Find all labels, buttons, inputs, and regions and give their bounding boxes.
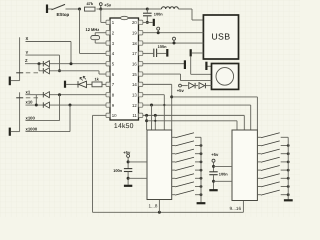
U1 notch (120, 16, 128, 19)
U1 pin 6 stub (106, 72, 110, 76)
resistor R2 1k (92, 82, 102, 87)
ground bar (64, 81, 66, 88)
switch S7 button 7 (172, 186, 176, 188)
wire (39, 70, 44, 72)
wire pin 14 (143, 83, 172, 85)
wire pin 18 D+ (143, 42, 204, 44)
wire (11, 80, 20, 82)
switch S16 button 16 (257, 194, 261, 196)
junction dot (38, 62, 41, 65)
switch S10 button 10 (257, 145, 261, 147)
svg-text:1...8: 1...8 (149, 203, 158, 208)
wire drop box2 (243, 115, 245, 130)
U1 pin 1 stub (106, 20, 110, 24)
switch S14 button 14 (257, 177, 261, 179)
resistor R1 47k (85, 7, 96, 11)
wire (181, 85, 187, 87)
svg-text:x1: x1 (26, 89, 31, 94)
junction dot (287, 169, 290, 172)
wire pin 3 (94, 40, 96, 43)
diode D5 (189, 83, 195, 89)
junction dot (158, 211, 161, 214)
svg-text:11: 11 (132, 113, 137, 118)
wire (147, 8, 161, 10)
junction dot (287, 177, 290, 180)
terminal +5v (212, 159, 215, 162)
LED D7 (79, 81, 87, 87)
wire USB GND (192, 52, 204, 54)
switch S9 button 9 (257, 136, 261, 138)
U1 pin 7 stub (106, 82, 110, 86)
wire pin 2 (94, 33, 96, 36)
wire pin 10 (93, 114, 107, 116)
junction dot (200, 169, 203, 172)
wire pin 19 D- (143, 32, 204, 34)
wire box1 common (158, 200, 160, 213)
wire USB gnd to encoder A (190, 56, 192, 74)
svg-text:100n: 100n (113, 168, 122, 173)
rotary switch SW1 terminal bar (9, 77, 11, 86)
wire pin 17 (143, 52, 154, 54)
switch S1 pole terminal bar (46, 5, 48, 14)
U1 pin 17 stub (139, 51, 143, 55)
wire (178, 8, 192, 10)
wire pin1 VDD (100, 9, 102, 22)
switch S4 button 4 (172, 161, 176, 163)
junction dot (150, 104, 153, 107)
terminal +5v (99, 3, 102, 6)
wire (128, 177, 147, 179)
switch S6 button 6 (172, 177, 176, 179)
switch S2 button 2 (172, 145, 176, 147)
SW2 linkage dashes (26, 97, 31, 99)
svg-text:18: 18 (132, 41, 137, 46)
junction dot (154, 114, 157, 117)
switch S15 button 15 (257, 186, 261, 188)
svg-text:47k: 47k (87, 1, 94, 6)
wire node pin5 (49, 63, 106, 65)
inductor L1 (162, 7, 179, 9)
U1 pin 2 stub (106, 31, 110, 35)
wire pin 11 (143, 114, 245, 116)
svg-text:+5v: +5v (211, 152, 219, 157)
svg-text:14k50: 14k50 (114, 123, 134, 130)
U1 pin 12 stub (139, 103, 143, 107)
junction dot (200, 161, 203, 164)
crystal Q1 12MHz (91, 36, 100, 40)
junction dot (146, 21, 149, 24)
ground (284, 199, 293, 201)
svg-text:+5v: +5v (123, 150, 131, 155)
wire x10 (26, 104, 44, 106)
wire bus (287, 137, 289, 199)
svg-text:9...16: 9...16 (230, 206, 242, 211)
ground (124, 185, 132, 187)
svg-text:16: 16 (132, 62, 137, 67)
terminal +5v (127, 154, 130, 157)
switch S5 button 5 (172, 169, 176, 171)
wire (97, 8, 101, 10)
capacitor C3 100n (124, 168, 132, 170)
svg-text:19: 19 (132, 31, 137, 36)
switch S8 button 8 (172, 194, 176, 196)
ground bar encoder (205, 62, 207, 70)
junction dot (127, 177, 130, 180)
svg-text:12 MHz: 12 MHz (86, 27, 100, 32)
rotary switch SW2 terminal bar (9, 128, 11, 136)
junction dot (287, 193, 290, 196)
svg-text:X: X (26, 36, 29, 41)
U1 pin 20 stub (139, 20, 143, 24)
switch S12 button 12 (257, 161, 261, 163)
junction dot (154, 120, 156, 122)
wire (214, 180, 233, 182)
wire (127, 157, 129, 168)
junction dot (163, 104, 165, 106)
junction dot (145, 114, 148, 117)
svg-text:x1000: x1000 (26, 126, 38, 131)
wire (66, 83, 78, 85)
junction dot (145, 119, 148, 122)
wire (214, 165, 233, 167)
junction dot (70, 62, 73, 65)
wire node pin9 (49, 104, 106, 106)
junction dot +5v node (99, 8, 102, 11)
ground bar (184, 60, 186, 69)
wire link (35, 95, 37, 105)
wire (206, 85, 212, 87)
svg-text:100n: 100n (219, 172, 228, 177)
wire pin 13 (143, 94, 165, 96)
wire link (38, 64, 40, 71)
U1 pin 8 stub (106, 93, 110, 97)
junction dot (287, 152, 290, 155)
junction dot (287, 144, 290, 147)
wire pin 20 (143, 21, 153, 23)
junction dot (69, 104, 72, 107)
terminal TP1 (157, 27, 160, 30)
connector J1 USB (203, 15, 238, 59)
wire row (147, 120, 237, 122)
junction dot (157, 31, 160, 34)
wire (87, 83, 93, 85)
svg-text:15: 15 (132, 72, 137, 77)
SW1 wiper tick (16, 72, 23, 74)
junction dot (200, 177, 203, 180)
switch S11 button 11 (257, 153, 261, 155)
capacitor C1 100n (143, 12, 152, 14)
wire drop (151, 105, 153, 130)
SW2 wiper tick (16, 97, 23, 99)
wire (213, 175, 215, 190)
wire (102, 83, 106, 85)
wire (128, 161, 147, 163)
junction dot (200, 144, 203, 147)
junction dot (127, 160, 130, 163)
svg-text:USB: USB (211, 32, 230, 42)
svg-text:Z: Z (25, 58, 28, 63)
svg-text:14: 14 (132, 82, 137, 87)
diode D6 (199, 83, 205, 89)
wire (213, 162, 215, 171)
terminal +5v encoder (179, 84, 182, 87)
junction dot (287, 185, 290, 188)
wire node pin8 (49, 94, 106, 96)
diode D1 (44, 61, 49, 67)
ground (197, 202, 206, 204)
U1 pin 10 stub (106, 113, 110, 117)
wire x1000 (26, 131, 71, 133)
U1 pin 14 stub (139, 82, 143, 86)
ground (209, 189, 217, 191)
U1 pin 11 stub (139, 113, 143, 117)
svg-text:Y: Y (26, 50, 29, 55)
svg-text:EStop: EStop (57, 12, 70, 17)
wire Y (26, 54, 60, 56)
connector X1 buttons 1-8 (147, 130, 172, 200)
wire x100 (26, 120, 60, 122)
wire pin 12 (143, 104, 251, 106)
SW1 linkage dashes (26, 72, 31, 74)
ground bar USB (190, 49, 192, 56)
wire (66, 8, 80, 10)
junction dot (173, 42, 176, 45)
junction dot (146, 8, 149, 11)
wire (48, 8, 53, 10)
junction dot (58, 69, 61, 72)
terminal TP2 (173, 37, 176, 40)
diode D3 (44, 92, 49, 98)
connector G1 encoder (212, 64, 239, 90)
wire (127, 172, 129, 185)
junction dot (212, 165, 215, 168)
junction dot (170, 95, 173, 98)
wire drop (154, 115, 156, 130)
wire bus (200, 137, 202, 202)
wire encoder gnd (208, 65, 212, 67)
svg-text:10: 10 (112, 113, 117, 118)
U1 pin 18 stub (139, 41, 143, 45)
wire Z (25, 63, 44, 65)
U1 pin 3 stub (106, 41, 110, 45)
wire box2 common (242, 201, 244, 213)
svg-text:x100: x100 (26, 115, 36, 120)
junction dot node MCLR (78, 8, 81, 11)
svg-text:100n: 100n (158, 44, 167, 49)
ground bar (153, 19, 155, 26)
switch S3 button 3 (172, 153, 176, 155)
capacitor C2 100n (153, 49, 155, 57)
LED arrows (80, 77, 83, 80)
switch S13 button 13 (257, 169, 261, 171)
U1 pin 15 stub (139, 72, 143, 76)
switch S1 EStop arm (52, 4, 66, 9)
svg-text:100n: 100n (154, 11, 163, 16)
svg-text:x10: x10 (26, 100, 34, 105)
wire pin 15 encoder B (143, 73, 181, 75)
U1 pin 13 stub (139, 93, 143, 97)
wire node pin6 (49, 70, 99, 72)
wire drop (146, 115, 148, 130)
wire x1 (26, 94, 44, 96)
svg-text:+5v: +5v (177, 88, 185, 93)
switch S1 button 1 (172, 136, 176, 138)
U1 pin 4 stub (106, 51, 110, 55)
U1 pin 5 stub (106, 62, 110, 66)
U1 pin 16 stub (139, 62, 143, 66)
svg-text:+5v: +5v (104, 2, 112, 7)
wire (196, 85, 198, 87)
U1 pin 9 stub (106, 103, 110, 107)
junction dot (287, 161, 290, 164)
wire (11, 131, 20, 133)
wire +5v rail (101, 8, 148, 10)
svg-text:13: 13 (132, 93, 137, 98)
wire (79, 9, 81, 53)
wire pin 16 (143, 63, 185, 65)
ground bar (166, 49, 168, 57)
encoder wheel circle (216, 68, 234, 86)
U1 pin 19 stub (139, 31, 143, 35)
junction dot (58, 93, 61, 96)
diode D2 (44, 68, 49, 74)
junction dot (200, 185, 203, 188)
wire (146, 9, 148, 13)
diode D4 (44, 102, 49, 108)
junction dot (200, 152, 203, 155)
wire (157, 52, 167, 54)
op-amp U1 PIC18F14K50 body (110, 18, 139, 120)
svg-text:17: 17 (132, 51, 137, 56)
junction dot (35, 104, 38, 107)
wire drop box2 (250, 105, 252, 130)
connector X2 buttons 9-16 (232, 130, 257, 201)
junction dot (200, 193, 203, 196)
svg-text:20: 20 (132, 20, 137, 25)
wire X (26, 41, 72, 43)
wire row to box2 (172, 96, 258, 98)
junction dot (212, 180, 215, 183)
svg-text:12: 12 (132, 103, 137, 108)
capacitor C4 100n (209, 171, 217, 173)
